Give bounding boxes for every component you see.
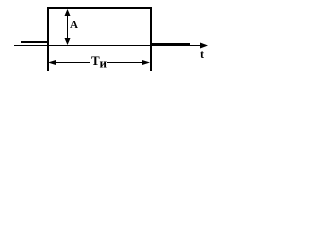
svg-text:и: и [100, 56, 108, 71]
svg-text:t: t [200, 47, 204, 61]
svg-text:А: А [70, 19, 78, 31]
